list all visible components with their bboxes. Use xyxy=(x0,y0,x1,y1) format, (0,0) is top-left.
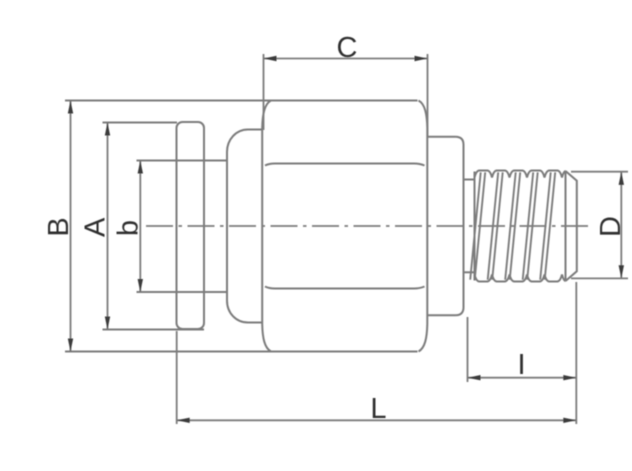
dimension L arrow right xyxy=(563,418,576,423)
dimension line A xyxy=(107,123,109,329)
svg-text:A: A xyxy=(80,217,112,237)
dimension C arrow left xyxy=(264,56,277,61)
hex face line upper xyxy=(265,164,425,166)
svg-text:L: L xyxy=(370,393,386,425)
dome shoulder outline xyxy=(227,130,262,323)
thread flank helix lines xyxy=(470,172,481,279)
thread-side neck bottom edge xyxy=(464,271,476,273)
hex nut top edge with B extension xyxy=(65,100,418,102)
thread end chamfer xyxy=(566,171,577,281)
thread crest outline top xyxy=(475,171,566,178)
extension line A top xyxy=(103,122,178,124)
svg-text:I: I xyxy=(517,349,525,381)
svg-text:B: B xyxy=(43,217,75,236)
hex nut bottom edge with B extension xyxy=(65,351,418,353)
dimension B arrow bottom xyxy=(68,339,73,352)
extension line C left xyxy=(263,54,265,130)
extension line D bottom xyxy=(571,277,628,279)
extension line A bottom xyxy=(103,329,205,331)
dimension b arrow bottom xyxy=(138,279,143,292)
dimension A arrow bottom xyxy=(105,317,110,330)
pipe stub / small neck top edge (b extension line) xyxy=(137,160,228,162)
dimension C arrow right xyxy=(415,56,428,61)
hex nut right edge xyxy=(419,101,428,352)
extension line C right xyxy=(427,54,429,136)
dimension A arrow top xyxy=(105,123,110,136)
dimension L arrow left xyxy=(177,418,190,423)
hex nut left edge xyxy=(262,101,271,352)
collar ring xyxy=(177,122,205,329)
dimension line B xyxy=(70,101,72,351)
dimension D arrow top xyxy=(619,172,624,185)
thread-side neck top edge xyxy=(464,179,476,181)
dimension line D xyxy=(620,172,622,278)
extension line I left xyxy=(467,317,469,382)
dimension I arrow left xyxy=(468,375,481,380)
svg-text:C: C xyxy=(337,32,358,64)
dimension line L xyxy=(177,419,576,421)
extension line D top xyxy=(571,171,628,173)
dimension b arrow top xyxy=(138,161,143,174)
centerline (dash-dot axis) xyxy=(146,225,590,227)
thread end face xyxy=(565,171,567,281)
dimension B arrow top xyxy=(68,101,73,114)
flange washer xyxy=(428,137,464,316)
hex face line lower xyxy=(265,287,425,289)
dimension line C xyxy=(264,58,427,60)
svg-text:b: b xyxy=(113,220,145,236)
dimension line b xyxy=(139,161,141,292)
thread start edge xyxy=(474,172,476,281)
thread crest outline bottom xyxy=(475,275,566,282)
dimension line I xyxy=(468,377,576,379)
extension line I-L right xyxy=(575,282,577,424)
dimension I arrow right xyxy=(563,375,576,380)
extension line L left xyxy=(176,331,178,424)
dimension D arrow bottom xyxy=(619,265,624,278)
pipe stub / small neck bottom edge (b extension line) xyxy=(137,291,228,293)
svg-text:D: D xyxy=(595,216,627,237)
